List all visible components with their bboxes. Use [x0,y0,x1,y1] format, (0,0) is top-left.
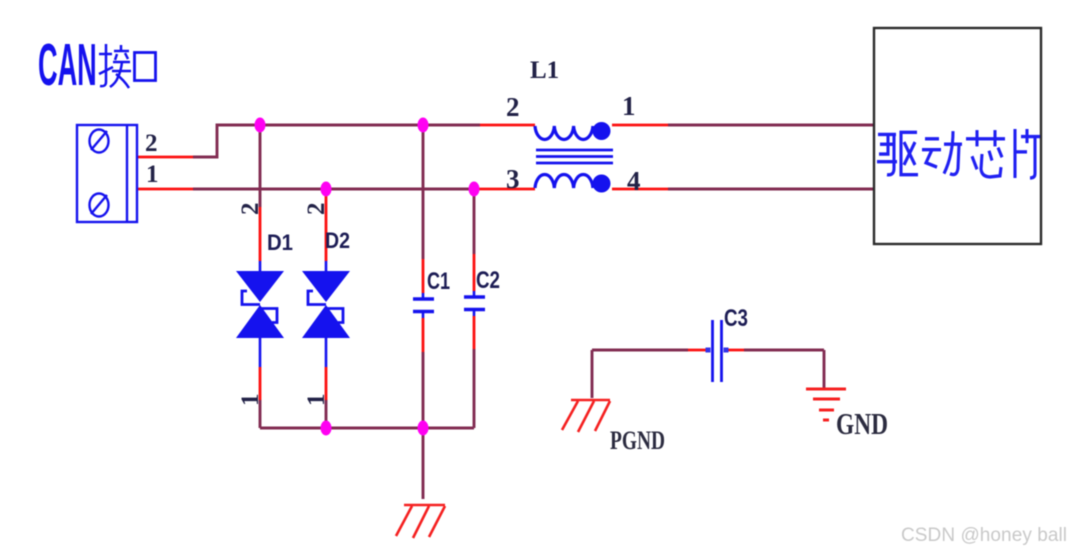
svg-text:D2: D2 [325,228,350,253]
svg-text:2: 2 [145,130,158,157]
svg-text:CSDN @honey ball: CSDN @honey ball [901,525,1067,546]
svg-text:CAN: CAN [38,31,97,98]
svg-text:2: 2 [506,92,520,122]
svg-text:PGND: PGND [610,426,665,455]
svg-text:1: 1 [622,91,636,121]
svg-text:1: 1 [237,394,264,407]
svg-text:C2: C2 [476,267,500,294]
svg-text:1: 1 [146,161,159,188]
svg-text:2: 2 [303,203,330,216]
svg-text:L1: L1 [530,57,559,84]
svg-text:4: 4 [627,166,641,196]
svg-text:GND: GND [836,406,888,441]
svg-text:1: 1 [303,394,330,407]
svg-text:3: 3 [506,164,520,194]
svg-text:2: 2 [237,203,264,216]
svg-text:D1: D1 [267,230,293,255]
svg-text:C1: C1 [427,268,450,295]
svg-text:C3: C3 [724,305,748,332]
